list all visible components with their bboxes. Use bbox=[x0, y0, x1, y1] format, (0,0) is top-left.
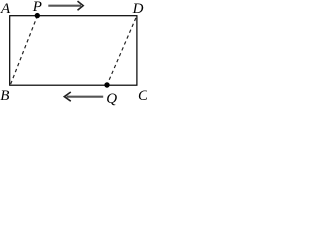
point P dot bbox=[35, 13, 40, 18]
bottom arrow shaft bbox=[67, 96, 104, 98]
top arrow shaft bbox=[48, 5, 81, 7]
point Q dot bbox=[104, 82, 109, 87]
svg-text:A: A bbox=[0, 1, 11, 17]
svg-text:D: D bbox=[132, 1, 144, 17]
svg-text:P: P bbox=[32, 0, 42, 15]
top arrow head bbox=[78, 1, 84, 10]
dashed line D to Q bbox=[107, 17, 136, 85]
bottom arrow head bbox=[64, 92, 71, 101]
rectangle ABCD bbox=[10, 16, 137, 86]
svg-text:C: C bbox=[138, 88, 147, 104]
svg-text:B: B bbox=[0, 88, 9, 104]
dashed line P to B bbox=[11, 16, 38, 85]
svg-text:Q: Q bbox=[106, 91, 117, 107]
